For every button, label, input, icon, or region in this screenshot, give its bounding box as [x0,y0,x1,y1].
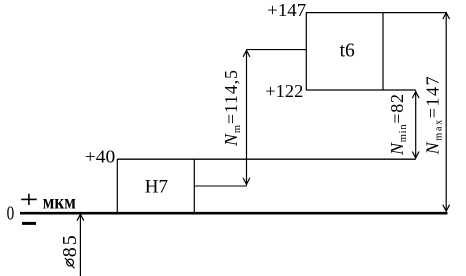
t6 top edge with extension line to Nmax [306,12,446,14]
minus sign [22,222,36,225]
Nm dimension line [246,50,248,185]
Nm arrowhead up [243,50,250,57]
t6 mid line (extension for Nm) [247,49,307,51]
Nmin arrowhead down [412,152,419,159]
H7 top edge with extension line to Nmin [117,158,415,160]
Nmin arrowhead up [412,92,419,99]
Nmin dimension line [415,91,417,159]
zero line [20,212,448,215]
H7 mid line (extension for Nm) [194,185,247,187]
svg-text:мкм: мкм [43,190,76,214]
plus sign [21,194,37,205]
Nm arrowhead down [243,178,250,185]
Nmax arrowhead up [443,13,450,20]
Nmax dimension line [445,12,447,211]
t6 tolerance box [306,12,383,91]
svg-text:0: 0 [7,202,15,224]
svg-text:+40: +40 [85,147,116,167]
svg-text:Nm=114,5: Nm=114,5 [221,70,243,147]
svg-text:H7: H7 [145,177,168,198]
svg-text:Nmax=147: Nmax=147 [423,76,445,155]
diameter 85 arrow [79,214,81,276]
diameter 85 arrowhead up [77,214,84,221]
svg-text:t6: t6 [340,40,355,62]
t6 bottom edge with extension line to Nmin [306,89,415,91]
svg-text:+147: +147 [267,0,306,20]
H7 tolerance box [117,159,194,212]
Nmax arrowhead down [443,205,450,212]
label diameter 85 rotated: slashed circle [67,259,74,266]
svg-text:+122: +122 [265,81,303,101]
